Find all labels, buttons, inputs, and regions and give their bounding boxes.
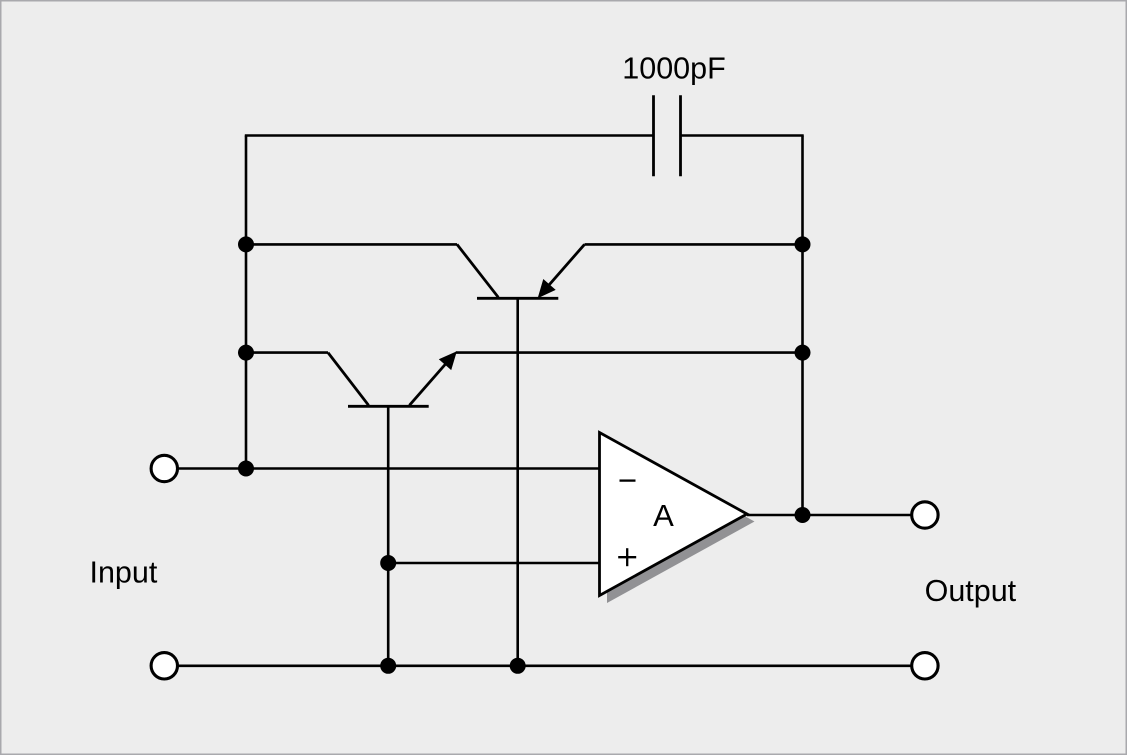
junction dot left rail / net A	[238, 236, 254, 252]
wire: net B left segment	[246, 351, 328, 354]
op-amp A shadow	[607, 440, 755, 603]
wire: right rail	[801, 136, 804, 516]
transistor Q1 (upper, PNP)	[457, 244, 585, 665]
capacitor C1 plates	[654, 95, 681, 176]
op-amp plus sign	[618, 548, 636, 566]
junction dot right rail / net A	[795, 236, 811, 252]
junction dot Q1 base / bottom wire	[510, 658, 526, 674]
wire: net B right segment	[456, 351, 803, 354]
Q2 base lead	[387, 406, 390, 666]
junction dot right rail / output	[795, 507, 811, 523]
junction dot left rail / input wire	[238, 461, 254, 477]
junction dot left rail / net B	[238, 345, 254, 361]
Q1 emitter diagonal with arrow	[548, 244, 584, 285]
input terminal top	[151, 455, 177, 481]
Q2 emitter diagonal with arrow	[409, 364, 446, 406]
op-amp A body	[600, 433, 748, 596]
svg-text:A: A	[653, 498, 674, 533]
Q1 base lead	[516, 298, 519, 666]
op-amp minus sign	[620, 479, 636, 481]
wire: net A left segment	[246, 243, 457, 246]
Q2 collector diagonal	[328, 353, 369, 406]
wire: top horizontal to capacitor left plate	[245, 134, 654, 137]
wire: non-inverting input	[388, 562, 599, 565]
output terminal bottom	[912, 653, 938, 679]
Q1 base bar	[477, 297, 558, 300]
wire: capacitor right plate to right rail	[681, 134, 804, 137]
junction dot Q2 base / non-inverting input	[380, 555, 396, 571]
wire: inverting input (top input)	[178, 467, 600, 470]
junction dot Q2 base / bottom wire	[380, 658, 396, 674]
input terminal bottom	[151, 653, 177, 679]
junction dot right rail / net B	[795, 345, 811, 361]
transistor Q2 (lower, NPN)	[328, 352, 456, 666]
Q2 base bar	[348, 405, 429, 408]
wire: output	[747, 514, 911, 517]
svg-text:1000pF: 1000pF	[622, 52, 725, 86]
Q1 emitter arrowhead	[539, 280, 555, 297]
wire: bottom common	[178, 664, 911, 667]
wire: left rail	[245, 136, 248, 469]
Q2 emitter arrowhead	[440, 352, 456, 369]
svg-text:Input: Input	[90, 556, 158, 590]
Q1 collector diagonal	[457, 244, 498, 297]
output terminal top	[912, 502, 938, 528]
wire: net A right segment	[585, 243, 803, 246]
svg-text:Output: Output	[925, 574, 1017, 608]
